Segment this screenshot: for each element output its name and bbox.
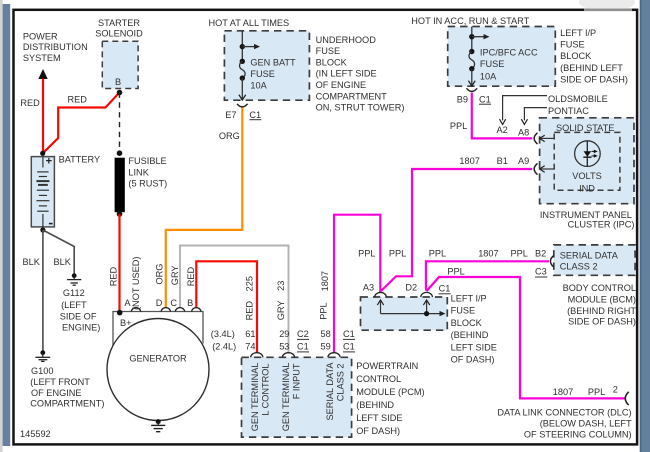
svg-text:FUSE: FUSE: [480, 59, 505, 69]
svg-text:(NOT USED): (NOT USED): [131, 257, 141, 310]
svg-text:SOLID STATE: SOLID STATE: [556, 123, 614, 133]
svg-text:PPL: PPL: [447, 267, 464, 277]
PCM terminal bump 74: [251, 353, 263, 358]
svg-text:(BEHIND: (BEHIND: [356, 400, 394, 410]
svg-text:F INPUT: F INPUT: [292, 363, 302, 399]
wire PPL B9 to IPC A2/A8: [472, 93, 532, 139]
svg-text:74: 74: [245, 342, 255, 352]
svg-text:1807: 1807: [459, 156, 479, 166]
svg-text:LEFT I/P: LEFT I/P: [560, 28, 596, 38]
generator terminal bar: [113, 312, 203, 346]
svg-text:B9: B9: [457, 94, 468, 104]
label BODY CONTROL MODULE (BCM): [563, 283, 637, 327]
svg-text:(BELOW DASH, LEFT: (BELOW DASH, LEFT: [540, 419, 632, 429]
svg-text:G112: G112: [63, 288, 85, 298]
wire RED battery to starter solenoid B: [43, 93, 120, 154]
svg-text:GEN TERMINAL: GEN TERMINAL: [281, 363, 291, 432]
svg-text:10A: 10A: [480, 72, 497, 82]
wire PPL BCM B2 to fuse block D2: [426, 261, 549, 291]
svg-text:POWERTRAIN: POWERTRAIN: [356, 361, 418, 371]
svg-text:A8: A8: [518, 127, 529, 137]
svg-text:C1: C1: [479, 94, 491, 104]
svg-text:(BEHIND LEFT: (BEHIND LEFT: [560, 63, 623, 73]
terminal bump D: [161, 308, 171, 312]
IPC/BFC fuse box: [448, 27, 556, 87]
generator ground: [151, 419, 165, 432]
IPC input arrow A2/A8: [540, 137, 555, 139]
node generator B+ junction dot: [117, 310, 123, 316]
IPC connector ( at A9: [534, 163, 537, 174]
right blue sidebar: [640, 0, 650, 452]
PCM terminal bump 59: [328, 353, 340, 358]
svg-text:FUSE: FUSE: [451, 306, 476, 316]
wire PPL fuse block D2 to DLC: [427, 277, 625, 398]
terminal bump A: [131, 308, 141, 312]
svg-text:(2.4L): (2.4L): [212, 342, 236, 352]
svg-text:OF ENGINE: OF ENGINE: [316, 80, 367, 90]
svg-text:BLK: BLK: [23, 257, 41, 267]
svg-text:SERIAL DATA: SERIAL DATA: [325, 362, 335, 421]
svg-text:L CONTROL: L CONTROL: [260, 364, 270, 416]
node fuse tap dot: [469, 34, 474, 39]
svg-text:GRY: GRY: [276, 301, 286, 321]
svg-text:SOLENOID: SOLENOID: [95, 28, 143, 38]
terminal bump B: [192, 308, 202, 312]
fuse output arrow down: [471, 69, 473, 86]
wire GRY generator C to PCM 53: [180, 246, 289, 353]
svg-text:59: 59: [321, 342, 331, 352]
svg-text:HOT IN ACC, RUN & START: HOT IN ACC, RUN & START: [411, 16, 529, 26]
svg-text:UNDERHOOD: UNDERHOOD: [316, 35, 377, 45]
svg-text:B1: B1: [497, 156, 508, 166]
wire PPL PCM 59 to fuse block A3: [334, 215, 380, 353]
svg-text:(LEFT: (LEFT: [61, 300, 87, 310]
svg-text:CLASS 2: CLASS 2: [560, 261, 598, 271]
svg-text:C1: C1: [343, 329, 355, 339]
ground G112 label: [60, 288, 101, 333]
wire dashed solenoid B to fusible link: [119, 93, 121, 154]
wire RED battery to power distribution: [42, 79, 44, 154]
svg-text:61: 61: [245, 329, 255, 339]
wire ORG E7 to generator D: [166, 108, 243, 308]
label POWERTRAIN CONTROL MODULE (PCM): [356, 361, 424, 436]
label VOLTS IND: [572, 171, 601, 194]
BCM connector (: [550, 256, 553, 268]
svg-text:OF ENGINE: OF ENGINE: [31, 388, 82, 398]
svg-text:LEFT SIDE: LEFT SIDE: [356, 413, 402, 423]
svg-text:53: 53: [279, 342, 289, 352]
svg-text:LINK: LINK: [128, 167, 149, 177]
svg-text:BLOCK: BLOCK: [316, 57, 348, 67]
svg-text:ENGINE): ENGINE): [62, 323, 100, 333]
svg-text:C2: C2: [297, 329, 309, 339]
svg-text:G100: G100: [31, 366, 53, 376]
svg-text:MODULE (BCM): MODULE (BCM): [568, 294, 636, 304]
generator circle: [107, 319, 209, 421]
battery: [31, 157, 54, 227]
branch arrow right: [472, 36, 485, 38]
svg-text:58: 58: [321, 329, 331, 339]
svg-text:DISTRIBUTION: DISTRIBUTION: [23, 42, 88, 52]
svg-text:(BEHIND RIGHT: (BEHIND RIGHT: [567, 306, 636, 316]
svg-text:SIDE OF: SIDE OF: [60, 312, 97, 322]
connector cup B9: [467, 88, 478, 91]
svg-text:SIDE OF DASH): SIDE OF DASH): [568, 317, 636, 327]
svg-text:ORG: ORG: [154, 264, 164, 285]
node solenoid B junction dot: [117, 90, 123, 96]
svg-text:225: 225: [245, 276, 255, 291]
svg-text:STARTER: STARTER: [98, 18, 140, 28]
svg-text:SERIAL DATA: SERIAL DATA: [560, 250, 619, 260]
svg-text:23: 23: [276, 281, 286, 291]
node fusible link top dot: [117, 150, 123, 156]
svg-text:A2: A2: [497, 125, 508, 135]
svg-text:SIDE OF DASH): SIDE OF DASH): [560, 74, 628, 84]
svg-text:C3: C3: [535, 267, 547, 277]
svg-text:PPL: PPL: [358, 249, 375, 259]
svg-text:(IN LEFT SIDE: (IN LEFT SIDE: [316, 69, 377, 79]
label LEFT I/P FUSE BLOCK (behind left side of dash): [451, 294, 497, 365]
PONTIAC callout arrow: [524, 108, 547, 121]
node POWER DISTRIBUTION SYSTEM label: [23, 32, 88, 63]
svg-text:FUSE: FUSE: [250, 69, 275, 79]
pin label rows (3.4L)/(2.4L): [211, 329, 355, 339]
svg-text:CLASS 2: CLASS 2: [336, 364, 346, 402]
svg-text:PPL: PPL: [319, 302, 329, 319]
node fusible link bottom dot: [117, 211, 123, 217]
IPC outer box: [540, 118, 634, 204]
svg-text:B: B: [115, 77, 121, 87]
fuse output arrow down: [241, 78, 243, 100]
svg-text:DATA LINK CONNECTOR (DLC): DATA LINK CONNECTOR (DLC): [497, 408, 631, 418]
svg-text:OF DASH): OF DASH): [356, 426, 400, 436]
svg-text:C1: C1: [297, 342, 309, 352]
wire BLK battery to G112: [43, 230, 74, 274]
fuse block box: [361, 297, 448, 330]
svg-text:(3.4L): (3.4L): [211, 329, 235, 339]
battery top stub: [42, 157, 44, 168]
svg-text:E7: E7: [225, 110, 236, 120]
svg-text:PPL: PPL: [429, 249, 446, 259]
wire BLK battery to G100: [42, 230, 44, 351]
left blue sidebar: [3, 4, 11, 446]
svg-text:RED: RED: [108, 267, 118, 287]
starter solenoid box: [102, 41, 138, 88]
connector cup E7: [237, 104, 248, 107]
svg-text:LEFT I/P: LEFT I/P: [451, 294, 487, 304]
svg-text:145592: 145592: [20, 429, 51, 439]
svg-text:B: B: [187, 298, 193, 308]
svg-text:OLDSMOBILE: OLDSMOBILE: [548, 94, 608, 104]
starter solenoid label: [95, 18, 143, 39]
serial data class 2 box: [554, 245, 635, 275]
label UNDERHOOD FUSE BLOCK: [316, 35, 405, 113]
ground G100: [35, 350, 50, 361]
fuse block interior arrows: [380, 300, 382, 314]
IPC inner box: [554, 132, 620, 190]
svg-text:CONTROL: CONTROL: [356, 374, 401, 384]
svg-text:OF STEERING COLUMN): OF STEERING COLUMN): [524, 430, 632, 440]
terminal bump D2: [421, 292, 433, 297]
svg-text:A9: A9: [518, 156, 529, 166]
svg-text:PPL: PPL: [389, 249, 406, 259]
svg-text:VOLTS: VOLTS: [572, 171, 601, 181]
svg-text:OF DASH): OF DASH): [451, 355, 495, 365]
svg-text:A3: A3: [363, 283, 374, 293]
svg-text:D: D: [156, 298, 163, 308]
fuse feed line: [241, 31, 243, 62]
svg-text:IPC/BFC ACC: IPC/BFC ACC: [480, 48, 538, 58]
svg-text:C1: C1: [249, 110, 261, 120]
svg-text:B2: B2: [535, 249, 546, 259]
svg-text:ON, STRUT TOWER): ON, STRUT TOWER): [316, 103, 405, 113]
svg-text:SYSTEM: SYSTEM: [23, 53, 61, 63]
svg-text:BLOCK: BLOCK: [560, 51, 592, 61]
svg-text:C: C: [170, 298, 177, 308]
svg-text:COMPARTMENT: COMPARTMENT: [316, 91, 388, 101]
label GEN BATT FUSE 10A: [250, 58, 296, 91]
label LEFT I/P FUSE BLOCK (top right): [560, 28, 628, 85]
svg-text:2: 2: [613, 384, 618, 394]
wire RED fusible link to generator B+: [118, 214, 120, 313]
node battery - junction dot: [40, 227, 45, 232]
PCM terminal bump 53: [282, 353, 294, 358]
svg-text:C1: C1: [343, 342, 355, 352]
svg-text:POWER: POWER: [23, 32, 58, 42]
label INSTRUMENT PANEL CLUSTER (IPC): [540, 210, 635, 229]
power distribution arrow: [38, 69, 47, 79]
label IPC/BFC ACC FUSE 10A: [480, 48, 538, 82]
fusible link (5 RUST): [115, 158, 125, 213]
branch arrow right: [242, 46, 255, 48]
terminal bump C: [175, 308, 185, 312]
PPL label row: [358, 249, 546, 259]
PCM box: [242, 357, 352, 437]
DLC connector (: [625, 392, 628, 405]
terminal bump A3: [375, 292, 387, 297]
svg-text:RED: RED: [20, 98, 40, 108]
svg-text:PPL: PPL: [511, 249, 528, 259]
svg-text:D2: D2: [405, 283, 417, 293]
svg-text:IND: IND: [579, 184, 595, 194]
label 1807 PPL 2: [553, 384, 618, 397]
fuse feed line: [471, 27, 473, 52]
svg-text:COMPARTMENT): COMPARTMENT): [30, 399, 104, 409]
svg-text:+: +: [46, 155, 52, 167]
left gray strip: [0, 0, 3, 452]
node interior junction dot: [424, 311, 429, 316]
svg-text:ORG: ORG: [219, 131, 240, 141]
battery bottom stub: [42, 214, 44, 227]
label 1807 B1 A9: [459, 156, 529, 166]
underhood fuse block box: [224, 31, 309, 100]
svg-text:RED: RED: [245, 301, 255, 321]
svg-text:29: 29: [279, 329, 289, 339]
svg-text:HOT AT ALL TIMES: HOT AT ALL TIMES: [209, 18, 290, 28]
svg-text:FUSE: FUSE: [560, 40, 585, 50]
ground G100 label: [30, 366, 104, 409]
svg-text:PPL: PPL: [588, 387, 605, 397]
svg-text:PPL: PPL: [450, 121, 467, 131]
svg-text:MODULE (PCM): MODULE (PCM): [356, 387, 424, 397]
svg-text:GEN TERMINAL: GEN TERMINAL: [250, 363, 260, 432]
fuse GEN BATT FUSE 10A symbol: [240, 59, 245, 64]
battery plates: [36, 172, 49, 211]
node fuse tap dot: [240, 44, 245, 49]
OLDSMOBILE callout arrow: [503, 96, 547, 121]
svg-text:(BEHIND: (BEHIND: [451, 330, 489, 340]
svg-text:CLUSTER (IPC): CLUSTER (IPC): [568, 219, 635, 229]
svg-text:BLOCK: BLOCK: [451, 318, 483, 328]
fuse IPC/BFC ACC FUSE 10A symbol: [469, 49, 474, 54]
wire PPL 1807 IPC A9 to left I/P fuse block A3: [381, 169, 532, 291]
svg-text:GEN BATT: GEN BATT: [250, 58, 296, 68]
wire RED generator B to PCM 74: [196, 261, 257, 352]
faint gray blob top right: [579, 0, 635, 11]
svg-text:(LEFT FRONT: (LEFT FRONT: [30, 377, 90, 387]
svg-text:1807: 1807: [478, 249, 498, 259]
svg-text:BATTERY: BATTERY: [59, 155, 101, 165]
svg-text:RED: RED: [186, 267, 196, 287]
svg-text:GRY: GRY: [170, 265, 180, 285]
svg-text:10A: 10A: [250, 81, 267, 91]
battery minus sign: [49, 223, 53, 225]
svg-text:LEFT SIDE: LEFT SIDE: [451, 342, 497, 352]
IPC connector ( at A2/A8: [534, 133, 537, 144]
svg-text:PONTIAC: PONTIAC: [548, 106, 589, 116]
ground G112: [67, 273, 81, 285]
node battery + junction dot: [40, 151, 45, 156]
svg-text:(5 RUST): (5 RUST): [128, 179, 167, 189]
svg-text:RED: RED: [68, 94, 88, 104]
svg-text:1807: 1807: [553, 387, 573, 397]
svg-text:GENERATOR: GENERATOR: [129, 354, 187, 364]
label DATA LINK CONNECTOR (DLC): [497, 408, 632, 440]
volts indicator circle: [575, 141, 601, 167]
svg-text:BODY CONTROL: BODY CONTROL: [563, 283, 636, 293]
svg-text:BLK: BLK: [54, 257, 72, 267]
svg-text:B+: B+: [120, 318, 132, 328]
fusible link label: [128, 156, 167, 189]
svg-text:FUSE: FUSE: [316, 46, 341, 56]
svg-text:FUSIBLE: FUSIBLE: [128, 156, 166, 166]
LED symbol: [586, 141, 588, 166]
svg-text:C1: C1: [439, 284, 451, 294]
svg-text:1807: 1807: [320, 271, 330, 291]
IPC input arrow A9: [540, 168, 555, 170]
